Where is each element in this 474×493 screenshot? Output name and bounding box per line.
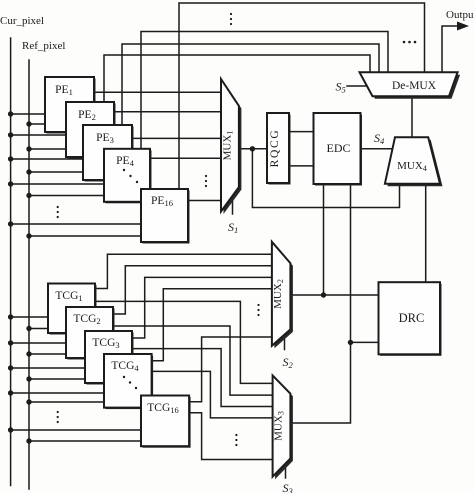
- wire EDC pin2 / MUX3 riser: [290, 184, 350, 423]
- wire PE1 output to MUX1: [94, 91, 221, 93]
- wire PE4 cur tap: [11, 183, 104, 185]
- junction dots on Ref bus: [26, 121, 31, 126]
- mux MUX2: [272, 242, 293, 348]
- wire TCG2 ref tap: [29, 353, 66, 355]
- ellipsis inside TCG4 cascade: [123, 376, 125, 378]
- svg-text:De-MUX: De-MUX: [392, 80, 437, 92]
- svg-text:MUX3: MUX3: [273, 411, 286, 441]
- test candidate generator TCG2: [66, 307, 115, 360]
- ellipsis MUX3 inputs: [235, 434, 237, 436]
- wire De-MUX bottom to MUX4 top: [411, 96, 413, 137]
- junction dots on Cur bus: [8, 111, 13, 116]
- svg-text:RQCG: RQCG: [269, 129, 281, 168]
- wire TCG4 cur tap: [11, 392, 104, 394]
- wire PE4 output to MUX1: [150, 157, 221, 159]
- wire De-MUX feedback to PE16 top: [179, 3, 425, 189]
- wire De-MUX feedback to PE2 top: [104, 55, 370, 102]
- wire EDC pin1 down: [323, 184, 325, 295]
- wire TCG4 outA to MUX2: [152, 289, 272, 361]
- svg-text:Cur_pixel: Cur_pixel: [0, 15, 44, 27]
- wire S5 select: [347, 85, 367, 87]
- ellipsis above De-MUX: [403, 41, 406, 44]
- wire PE16 cur tap: [11, 223, 141, 225]
- wire S1 select: [232, 197, 234, 215]
- ellipsis top bundle: [230, 13, 232, 15]
- wire TCG16 outA to MUX2: [189, 337, 272, 402]
- wire De-MUX feedback to PE3 top: [122, 44, 379, 125]
- mux MUX4: [385, 137, 443, 186]
- wire TCG3 outA to MUX2: [132, 277, 272, 338]
- wire Cur_pixel bus: [10, 38, 12, 486]
- svg-text:MUX1: MUX1: [222, 131, 235, 161]
- wire MUX1 output to RQCG: [239, 148, 267, 150]
- junction dot EDC pin2 / MUX3 / DRC: [348, 340, 353, 345]
- wire EDC output S4 to MUX4: [361, 148, 392, 150]
- wire PE3 cur tap: [11, 158, 83, 160]
- wire TCG2 cur tap: [11, 342, 66, 344]
- svg-text:DRC: DRC: [399, 311, 425, 325]
- block EDC: [314, 113, 363, 186]
- wire TCG16 outB to MUX3: [189, 413, 273, 460]
- wire TCG3 ref tap: [29, 378, 85, 380]
- mux MUX1: [221, 79, 241, 214]
- wire TCG4 outB to MUX3: [152, 371, 273, 418]
- wire De-MUX feedback to PE4 top: [141, 32, 388, 150]
- wire S2 select: [284, 335, 286, 350]
- wire TCG16 ref tap: [29, 440, 141, 442]
- mux MUX3: [273, 375, 293, 479]
- svg-text:MUX2: MUX2: [272, 279, 285, 309]
- wire PE3 ref tap: [29, 171, 83, 173]
- processing element PE1: [45, 77, 96, 134]
- ellipsis bus PE gap: [57, 206, 59, 208]
- block RQCG: [267, 113, 291, 185]
- wire MUX2 output to DRC: [290, 294, 378, 296]
- ellipsis MUX2 inputs: [257, 304, 259, 306]
- arrowhead Output_pixel: [457, 22, 469, 31]
- junction dot MUX1 output feedback: [250, 146, 255, 151]
- wire PE2 cur tap: [11, 134, 66, 136]
- junction dot EDC pin on MUX2-DRC line: [321, 292, 326, 297]
- processing element PE3: [83, 125, 134, 182]
- wire TCG3 outB to MUX3: [132, 349, 273, 407]
- test candidate generator TCG16: [141, 396, 191, 448]
- svg-text:MUX4: MUX4: [397, 160, 427, 173]
- wire S3 select: [285, 464, 287, 479]
- processing element PE2: [66, 102, 116, 159]
- wire TCG3 cur tap: [11, 367, 85, 369]
- wire TCG4 ref tap: [29, 401, 104, 403]
- wire PE1 ref tap: [29, 123, 45, 125]
- wire PE4 ref tap: [29, 195, 104, 197]
- ellipsis inside PE4 cascade: [123, 169, 125, 171]
- svg-text:Ref_pixel: Ref_pixel: [22, 40, 65, 52]
- test candidate generator TCG4: [104, 354, 153, 409]
- wire TCG1 ref tap: [29, 328, 48, 330]
- wire junction to DRC second input: [351, 341, 379, 343]
- test candidate generator TCG1: [48, 284, 97, 335]
- wire TCG2 outB to MUX3: [113, 326, 273, 395]
- processing element PE4: [104, 149, 152, 204]
- wire MUX4 to DRC top: [425, 184, 427, 283]
- block DRC: [379, 282, 442, 356]
- wire PE16 output to MUX1: [188, 200, 221, 202]
- wire TCG1 outB to MUX3: [95, 301, 273, 383]
- wire TCG1 outA to MUX2: [95, 254, 272, 288]
- wire PE2 ref tap: [29, 148, 66, 150]
- wire RQCG to EDC lower: [289, 165, 314, 167]
- wire RQCG to EDC upper: [289, 131, 314, 133]
- ellipsis MUX1 inputs: [205, 175, 207, 177]
- wire Ref_pixel bus: [28, 60, 30, 489]
- wire PE3 output to MUX1: [132, 137, 221, 139]
- wire PE16 ref tap: [29, 235, 141, 237]
- test candidate generator TCG3: [85, 331, 134, 385]
- ellipsis bus TCG gap: [57, 411, 59, 413]
- svg-text:Output_pixel: Output_pixel: [446, 9, 474, 21]
- svg-text:EDC: EDC: [327, 141, 351, 155]
- wire TCG16 cur tap: [11, 429, 141, 431]
- demux De-MUX: [360, 72, 461, 99]
- wire feedback MUX1-out to MUX4 bottom pin: [252, 149, 399, 208]
- wire Output_pixel line: [442, 26, 460, 72]
- processing element PE16: [141, 189, 190, 244]
- wire PE1 cur tap: [11, 113, 45, 115]
- wire TCG2 outA to MUX2: [113, 266, 272, 314]
- wire PE2 output to MUX1: [114, 111, 221, 113]
- wire TCG1 cur tap: [11, 316, 48, 318]
